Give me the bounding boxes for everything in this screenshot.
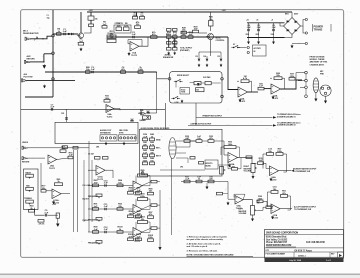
svg-text:JW1: JW1: [96, 147, 99, 149]
wire switches common: [175, 82, 177, 88]
svg-text:SWR SOUND CORPORATION: SWR SOUND CORPORATION: [266, 231, 298, 234]
output jack circles: [305, 71, 308, 74]
box effects blend: [205, 160, 218, 169]
svg-text:BLEND: BLEND: [206, 165, 212, 167]
zener D4: [206, 56, 208, 58]
wire U11 out: [57, 158, 69, 160]
vertical eq right bus: [171, 158, 173, 235]
terminal strip box 2: [119, 135, 137, 141]
ground below J3: [43, 85, 45, 89]
transistor Q1: [78, 33, 83, 38]
svg-text:.1uF: .1uF: [271, 27, 276, 29]
svg-text:TREBLE: TREBLE: [24, 198, 32, 200]
mode select box outline: [170, 72, 222, 103]
input jack J1: [25, 37, 30, 40]
svg-text:TL072: TL072: [107, 116, 114, 118]
wire R25 to U5: [264, 88, 271, 90]
XLR connector J10: [320, 85, 331, 96]
wires lower box: [160, 169, 205, 171]
zener D5: [220, 52, 222, 58]
wire Q2 down: [210, 40, 212, 57]
U13 vertical box: [56, 213, 59, 218]
svg-text:30000-1: 30000-1: [298, 256, 306, 258]
ground U3: [128, 52, 130, 56]
resistor R600 in box: [196, 88, 204, 92]
resistor R67 under LED: [143, 116, 151, 119]
U14 feedback resistors: [95, 157, 101, 160]
eq capacitor: [105, 184, 106, 187]
pot bass: [26, 174, 34, 177]
op-amp U10: [235, 196, 243, 205]
svg-text:10k: 10k: [95, 19, 98, 21]
svg-text:.1uF: .1uF: [246, 27, 251, 29]
mode box input port circle: [168, 78, 171, 81]
resistor R46 in box: [199, 162, 204, 165]
eq pot: [96, 241, 102, 244]
input box bottom wire: [25, 96, 53, 98]
wire master row: [181, 181, 228, 183]
svg-text:2200: 2200: [246, 34, 250, 36]
wire into U9: [263, 201, 271, 206]
capacitor C4 on row1: [133, 36, 134, 39]
svg-text:.1uF: .1uF: [256, 27, 261, 29]
AC inlet box: [253, 45, 267, 56]
resistor R22: [194, 82, 201, 85]
wire R32-R33: [190, 140, 196, 142]
node circle B: [52, 52, 55, 55]
op-amp U3: [130, 42, 139, 52]
aural extra R49 R50: [167, 29, 172, 32]
svg-text:.1uF: .1uF: [103, 206, 108, 208]
svg-text:.1uF: .1uF: [50, 107, 55, 109]
pot ground: [252, 215, 254, 218]
svg-text:TL072: TL072: [131, 55, 138, 57]
wire bridge top to rail: [291, 12, 293, 18]
wire U11 to U12: [40, 163, 42, 190]
svg-text:JP2: JP2: [180, 167, 183, 169]
ground aural 2: [174, 52, 176, 55]
svg-text:FAX: 818-598-4796: FAX: 818-598-4796: [306, 241, 326, 244]
svg-text:RET R: RET R: [156, 156, 162, 158]
footswitch box outline: [55, 122, 138, 143]
ribbon connector P2: [313, 78, 319, 93]
svg-text:ALESIS SIGNAL FROM JB2 BOARD: ALESIS SIGNAL FROM JB2 BOARD: [141, 127, 170, 130]
preamp high output bus: [196, 116, 273, 118]
svg-text:C22: C22: [61, 113, 64, 115]
ground in mode box: [181, 100, 183, 103]
wire R1b down: [84, 27, 91, 33]
arrow limiter bus: [273, 124, 277, 126]
power rail bottom: [247, 37, 285, 39]
svg-text:C9 .047: C9 .047: [88, 153, 94, 156]
ground below J2: [43, 64, 46, 68]
eq pot: [96, 194, 102, 197]
svg-text:(PWR AMP): (PWR AMP): [180, 49, 190, 52]
ground master row: [206, 186, 208, 190]
wire mute row: [199, 32, 208, 34]
svg-text:(COSMETIC) BOARD #1: (COSMETIC) BOARD #1: [277, 116, 296, 119]
capacitor C2: [64, 33, 65, 36]
ground U12: [52, 201, 54, 205]
pot treble: [26, 200, 34, 203]
eq stage wire: [88, 208, 133, 210]
resistor R40: [266, 206, 272, 209]
svg-text:RETURN: RETURN: [27, 58, 36, 60]
wire into U8: [252, 162, 257, 164]
op-amp U9: [271, 204, 280, 214]
wire into U10 row: [223, 193, 229, 195]
U7 feedback wire: [221, 147, 224, 155]
diode D2: [197, 83, 199, 85]
svg-text:AC PWR: AC PWR: [254, 47, 262, 50]
master volume pot P1: [251, 206, 255, 216]
svg-text:.1uF: .1uF: [62, 31, 67, 33]
svg-text:ENHANCER: ENHANCER: [163, 56, 174, 59]
wire row2 into box: [157, 72, 169, 79]
wires ribbon to resistors: [176, 140, 196, 142]
switch S4: [173, 98, 174, 99]
title small box right: [338, 252, 344, 258]
resistor R47: [63, 146, 68, 149]
svg-text:-16: -16: [256, 19, 258, 21]
op-amp U12: [52, 189, 61, 199]
wire into U4: [228, 37, 238, 90]
ground footswitch: [105, 142, 107, 145]
ground U8: [270, 178, 272, 182]
wire bridge left: [280, 23, 284, 26]
svg-text:PREAMP HIGH OUTPUT: PREAMP HIGH OUTPUT: [203, 115, 223, 118]
pot mid: [26, 187, 34, 190]
left master feedback wire: [268, 192, 272, 207]
svg-text:P DOCUMENT NUMBER: P DOCUMENT NUMBER: [266, 254, 286, 256]
svg-text:S1: S1: [233, 44, 235, 46]
node circle box right top: [221, 78, 224, 81]
svg-text:.1uF: .1uF: [131, 34, 136, 36]
tone box outline: [24, 169, 39, 210]
resistor R48: [73, 146, 78, 149]
resistor R1b: [89, 24, 94, 27]
svg-text:TO POWERAMP, XLR: TO POWERAMP, XLR: [293, 170, 311, 173]
ground supply 3: [272, 41, 274, 44]
eq stage wire: [88, 231, 133, 233]
svg-text:.1uF: .1uF: [90, 69, 95, 71]
svg-text:.1uF: .1uF: [103, 229, 108, 231]
eq capacitor: [105, 208, 106, 211]
ribbon connector P3: [169, 138, 176, 159]
U13 resistor 27k: [38, 220, 44, 223]
U14 wires: [88, 169, 96, 171]
title divider 2: [265, 251, 344, 253]
svg-text:.1uF: .1uF: [44, 212, 49, 214]
ground supply 2: [257, 41, 259, 44]
U10 feedback wire: [234, 194, 245, 200]
ground eq bottom: [159, 246, 162, 250]
transformer terminal T1a: [305, 18, 307, 20]
wire pad row: [190, 82, 195, 84]
svg-text:27k 5%: 27k 5%: [39, 224, 45, 226]
vertical bus v1: [73, 150, 75, 232]
junction dot J2: [43, 61, 44, 62]
svg-text:Phone: 818-598-5747: Phone: 818-598-5747: [266, 241, 288, 244]
svg-text:SW REMOTE: SW REMOTE: [100, 133, 111, 135]
svg-text:+16: +16: [246, 19, 249, 21]
title block outline: [265, 230, 344, 259]
op-amp U4: [238, 87, 248, 97]
resistor R44 under U7: [232, 168, 238, 171]
svg-text:VOLUME: VOLUME: [244, 171, 252, 173]
vertical bus v2: [77, 150, 79, 232]
svg-text:+8: +8: [271, 19, 273, 21]
svg-text:8100 Glenoaks Blvd.: 8100 Glenoaks Blvd.: [266, 237, 287, 239]
ground XLR: [325, 96, 327, 99]
eq out resistor: [151, 180, 157, 183]
arrow preamp bus: [273, 116, 277, 118]
capacitor C8 electrolytic: [257, 29, 260, 30]
eq feedback wire: [135, 199, 137, 207]
title divider 0: [265, 233, 344, 235]
U13 wires: [35, 208, 45, 215]
ground U10 input: [227, 202, 229, 206]
vertical feed to eq rows: [88, 141, 90, 232]
sheet bottom scan edge: [0, 275, 360, 278]
svg-text:LOW: LOW: [175, 102, 179, 104]
wire J2 to trunk: [30, 61, 44, 63]
AC inlet circles: [247, 46, 249, 48]
svg-text:EQ OUT: EQ OUT: [83, 199, 90, 201]
svg-text:R12: R12: [166, 34, 169, 36]
svg-text:D3: D3: [196, 56, 198, 58]
vertical bus v3: [83, 160, 85, 222]
svg-text:2. All bulbs have +15 volts to: 2. All bulbs have +15 volts to pin 8,: [187, 243, 221, 246]
wire bridge bottom: [285, 35, 293, 38]
transistor Q2 mute: [208, 34, 214, 40]
op-amp U11: [48, 155, 57, 164]
wire rail drop: [136, 12, 138, 16]
ground footswitch 2: [123, 142, 125, 145]
U5 feedback wire: [270, 77, 272, 79]
wires oval lower: [176, 158, 188, 163]
switch S1 power: [233, 47, 234, 48]
node circle on J3 wire: [52, 78, 55, 81]
vertical bus v4: [91, 160, 93, 222]
resistor R1: [88, 16, 94, 20]
aural column R16 R17: [167, 48, 172, 51]
svg-text:1000: 1000: [271, 34, 275, 36]
pot P2 ground: [252, 173, 254, 176]
wire J1 to trunk: [30, 36, 52, 39]
bridge rectifier BR1: [284, 18, 301, 35]
op-amp U6 above bus: [106, 105, 114, 113]
svg-text:LIMITER ACTIVE OUTPUT: LIMITER ACTIVE OUTPUT: [191, 123, 213, 126]
wire Q1 collector: [80, 12, 82, 33]
ground supply 1: [247, 41, 249, 44]
eq out resistor: [151, 227, 157, 230]
svg-text:TRANS: TRANS: [314, 27, 323, 31]
line in jack J5: [22, 157, 27, 160]
limit LED D7: [130, 118, 134, 122]
wire R44 loop: [238, 158, 242, 169]
wire U10 out: [243, 200, 253, 206]
svg-text:1. Reference designators with: 1. Reference designators with an X prefi…: [187, 235, 228, 238]
eq feedback wire: [135, 222, 137, 230]
wire R40 to U9: [271, 206, 272, 208]
svg-text:OPTO CPL: OPTO CPL: [115, 23, 125, 25]
right master pot P2: [251, 164, 255, 173]
junction dot J1: [42, 38, 43, 39]
capacitor C5: [92, 71, 93, 74]
input jack J2: [25, 60, 30, 63]
svg-text:TL072: TL072: [134, 241, 141, 243]
aural wires: [168, 38, 170, 47]
switch arrow on J1 wire: [34, 37, 38, 41]
op-amp U7: [228, 153, 238, 163]
wire bridge right to transformer: [301, 20, 306, 27]
eq op-amp: [133, 205, 142, 215]
ground U9: [271, 216, 273, 220]
transformer terminal T1b: [305, 32, 307, 34]
resistor R34b out: [246, 156, 252, 159]
wire U3 out: [139, 37, 148, 46]
svg-text:VOLUME: VOLUME: [239, 213, 248, 215]
wire jack bus to Q1: [53, 33, 78, 35]
node small circle: [68, 33, 70, 35]
ground aural 1: [168, 52, 170, 55]
right master feedback wire: [263, 154, 267, 169]
svg-text:3. Resistors are Ohms, 1/4 wat: 3. Resistors are Ohms, 1/4 watt.: [187, 249, 218, 252]
resistor R23: [205, 82, 211, 85]
eq stage wire: [88, 185, 133, 187]
svg-text:TL072: TL072: [49, 168, 56, 170]
wire pot to R40: [257, 207, 266, 210]
power rail top: [247, 22, 285, 24]
wires to jack circles: [296, 73, 305, 80]
wire S1 to plug: [238, 47, 247, 49]
title divider 1: [265, 247, 344, 249]
op-amp U5: [271, 84, 281, 94]
limiter active output bus: [188, 124, 273, 126]
eq capacitor: [105, 231, 106, 234]
phones jack arrow: [147, 116, 150, 119]
wire R30: [210, 12, 212, 21]
ground U4: [239, 99, 241, 103]
svg-text:July 30, 1998: July 30, 1998: [289, 260, 302, 262]
signal wire row2: [45, 71, 157, 73]
opto box U2: [114, 25, 131, 33]
node circle A: [52, 34, 55, 37]
eq out vertical: [159, 190, 161, 246]
ground ribbon: [315, 93, 317, 98]
eq feedback wire: [135, 176, 137, 184]
U13 cap: [45, 214, 46, 217]
ground U7: [228, 164, 230, 168]
svg-text:ARE PART OF THE: ARE PART OF THE: [310, 61, 328, 64]
vertical from mode box: [164, 103, 166, 129]
wire terminal c: [292, 43, 305, 45]
svg-text:CONTROL: CONTROL: [216, 40, 226, 42]
bus A wire: [21, 108, 166, 110]
eq pot: [96, 218, 102, 221]
U4 feedback wire: [237, 80, 239, 82]
svg-text:UNBAL: UNBAL: [140, 119, 147, 122]
svg-text:are part of the chassis sub-as: are part of the chassis sub-assembly.: [187, 238, 224, 241]
zener D3: [198, 52, 200, 58]
svg-text:PASSIVE/ACTIVE: PASSIVE/ACTIVE: [23, 32, 39, 35]
aural column R14 R15: [167, 42, 172, 45]
wire R1 down: [90, 12, 92, 16]
capacitor C9 electrolytic: [272, 29, 275, 30]
title cell dividers: [293, 252, 295, 258]
wire J3 to trunk: [27, 79, 76, 81]
svg-text:R9 1M: R9 1M: [108, 33, 114, 35]
op-amp U14: [96, 166, 105, 176]
svg-text:and -15 volts to pin 4.: and -15 volts to pin 4.: [187, 245, 208, 248]
transformer terminal T1c: [305, 42, 307, 44]
wire U9 out arrow: [280, 208, 292, 210]
node circle box right bottom: [221, 95, 224, 98]
effects blend pot: [220, 167, 224, 175]
wire U12: [46, 190, 52, 192]
terminal strip box 1: [100, 135, 117, 141]
vertical panel trunk wire: [52, 10, 54, 97]
svg-text:D5: D5: [218, 56, 220, 58]
svg-text:CHASSIS ASSY.: CHASSIS ASSY.: [310, 63, 325, 66]
wire row2 down to jack: [147, 79, 157, 113]
jb2 board box outline: [140, 129, 223, 176]
svg-text:XLR PAD: XLR PAD: [203, 76, 211, 79]
op-amp U8: [270, 166, 279, 176]
svg-text:(COSMETIC) BOARD #2: (COSMETIC) BOARD #2: [277, 124, 296, 127]
vertical jack bus: [305, 74, 307, 79]
svg-text:TONE: TONE: [181, 92, 185, 94]
ground U5: [272, 96, 274, 100]
input jack J3: [22, 79, 27, 82]
svg-text:RETURN: RETURN: [22, 161, 30, 163]
svg-text:2200: 2200: [256, 34, 260, 36]
main signal wire row1: [107, 36, 228, 38]
title dark revision band: [265, 258, 344, 262]
eq out resistor: [151, 204, 157, 207]
wire U8 out arrow: [279, 170, 292, 172]
hold tone box: [180, 88, 190, 95]
capacitor C12 entry: [66, 109, 68, 122]
resistor R38b: [217, 192, 223, 195]
wire top rail left segment: [87, 11, 292, 13]
ground Q1 emitter: [80, 48, 82, 52]
resistor R45 in box: [190, 157, 195, 160]
svg-text:FOOT SW: FOOT SW: [24, 76, 33, 78]
svg-text:MODE SELECT: MODE SELECT: [177, 75, 190, 77]
eq op-amp: [133, 228, 142, 238]
limit LED D6: [146, 110, 150, 114]
wire U4 out: [248, 91, 259, 93]
vertical from mode box 2: [195, 103, 197, 125]
wire zener row: [199, 51, 221, 53]
eq op-amp: [133, 181, 142, 191]
svg-text:LINE IN: LINE IN: [22, 142, 29, 144]
wire U7 out: [238, 157, 253, 163]
U3 feedback wire: [128, 40, 142, 47]
wire U5 out: [281, 80, 303, 89]
U13 ground: [57, 218, 59, 222]
switch S2: [175, 81, 176, 82]
svg-text:BR1: BR1: [285, 14, 289, 16]
capacitor C7 electrolytic: [247, 29, 250, 30]
capacitor C11: [51, 108, 52, 111]
diode D1: [71, 33, 73, 35]
svg-text:.1uF: .1uF: [103, 183, 108, 185]
svg-text:Sun Valley, CA 91352: Sun Valley, CA 91352: [266, 238, 288, 241]
svg-text:EFFECTS: EFFECTS: [206, 163, 213, 165]
